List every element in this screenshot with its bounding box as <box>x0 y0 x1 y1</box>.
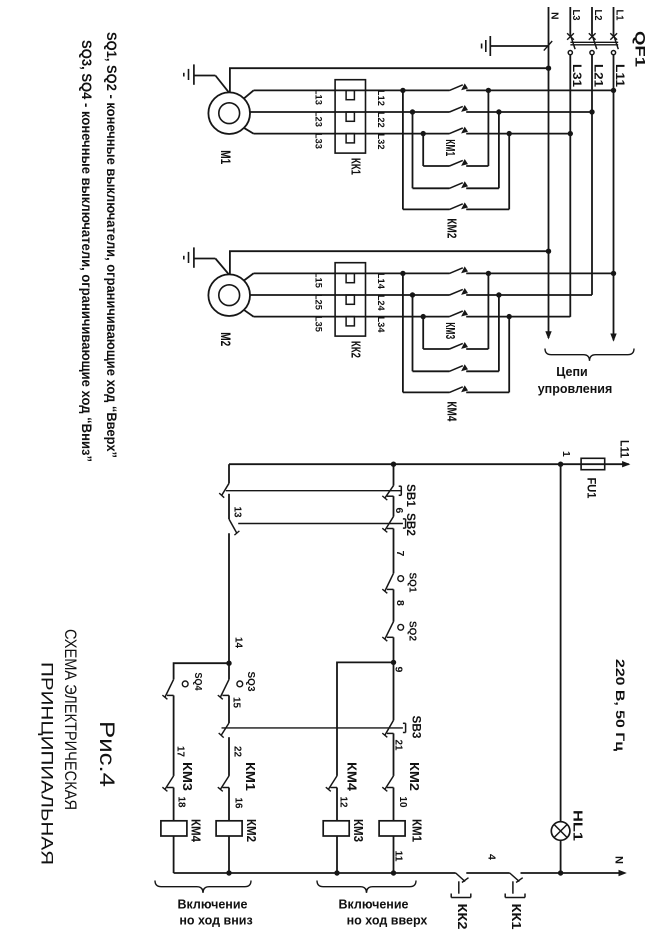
contactor КМ3 pole 3 <box>461 310 468 317</box>
pushbutton SB1 contact <box>385 486 394 499</box>
wire motor frame to earth <box>215 259 229 275</box>
brace switching-up group <box>317 881 416 893</box>
wire phase 1 КМ3 upper <box>466 272 613 274</box>
brace switching-down group <box>155 881 251 893</box>
continuation arrow N rail to control circuits <box>545 331 551 339</box>
coil KM3 <box>323 821 349 836</box>
pushbutton SB3 cap <box>405 723 407 732</box>
svg-text:Включение: Включение <box>339 898 409 912</box>
lamp HL1 <box>551 822 570 841</box>
limit switch SQ1 roller <box>398 576 404 582</box>
contactor КМ2 pole 2 <box>461 181 468 188</box>
coil KM4 <box>161 821 187 836</box>
limit switch SQ4 contact <box>165 679 174 697</box>
motor М2 outer circle <box>208 274 250 316</box>
thermal contact blade <box>456 873 465 882</box>
heater elements КК1 <box>346 90 354 99</box>
ground symbol motor frame <box>194 258 216 260</box>
wire KM4 coil to return rail <box>173 836 175 873</box>
wire rail L3 after breaker <box>569 55 571 317</box>
wire КМ4 cross upper 2 <box>498 295 500 371</box>
continuation arrow L1 rail to control circuits <box>610 334 616 342</box>
junction rung2 / return rail <box>334 870 339 875</box>
wire КМ4 cross upper 3 <box>508 317 510 393</box>
wire KM2 coil to return rail <box>228 836 230 873</box>
QF1 linkage bar <box>570 41 618 43</box>
wire top bus to lamp <box>560 464 562 821</box>
wire node 18 <box>173 788 175 821</box>
thermal relay КК2 box <box>335 263 365 336</box>
wire КМ4 cross lower 3 <box>422 317 424 349</box>
thermal contact actuator <box>458 881 460 893</box>
contactor КМ1 pole 1 <box>461 83 468 90</box>
linkage SB2 to aux contact <box>238 523 403 525</box>
wire phase 2 КМ1 upper <box>466 111 592 113</box>
coil KM1 <box>379 821 405 836</box>
wire КМ2 cross upper 3 <box>508 134 510 210</box>
junction L3 rail / M1 phase wire <box>568 131 573 136</box>
wire lamp to return rail <box>560 841 562 873</box>
junction feeder/bus <box>558 462 563 467</box>
wire feeder from L11 <box>561 463 629 465</box>
wire phase 1 into motor <box>244 90 254 98</box>
wire phase 1 КМ3 lower <box>254 272 450 274</box>
wire node 22 <box>228 737 230 776</box>
wire node 8 <box>393 589 395 621</box>
limit switch SQ1 contact <box>385 573 394 591</box>
wire rail L2 after breaker <box>591 55 593 295</box>
junction L1 rail / M2 phase wire <box>611 271 616 276</box>
limit switch SQ2 contact <box>385 622 394 640</box>
contactor КМ3 pole 2 <box>461 288 468 295</box>
svg-text:но ход вниз: но ход вниз <box>179 914 252 928</box>
wire phase 3 into motor <box>244 128 254 134</box>
circuit breaker QF1 (3-pole) on rails L1 L2 L3 <box>613 7 615 35</box>
motor М2 inner circle <box>219 285 240 306</box>
wire КМ4 pole1 vertical <box>466 348 488 350</box>
svg-text:упровления: упровления <box>538 382 613 396</box>
motor М1 inner circle <box>219 103 240 124</box>
wire rail N <box>548 7 550 338</box>
wire phase 2 КМ3 lower <box>250 294 450 296</box>
auxiliary contact linked to SB3 <box>221 723 229 735</box>
wire node 7 <box>393 529 395 574</box>
wire КМ2 pole3 vertical <box>466 208 509 210</box>
wire N to motor frame <box>230 251 549 275</box>
pushbutton SB3 contact <box>385 720 394 735</box>
wire return rail lower <box>174 872 456 874</box>
wire phase 1 КМ1 lower <box>254 89 450 91</box>
junction main rung / return rail <box>391 870 396 875</box>
wire KM3 coil to return rail <box>336 836 338 873</box>
contactor КМ3 pole 1 <box>461 266 468 273</box>
limit switch SQ3 roller <box>237 681 243 687</box>
wire main rung start <box>393 464 395 485</box>
wire КМ2 cross lower 2 <box>412 112 414 188</box>
continuation arrow N control <box>619 870 627 876</box>
contactor КМ2 pole 3 <box>461 202 468 209</box>
junction N rail / M2 frame tap <box>546 249 551 254</box>
wire КМ2 pole2 vertical <box>466 187 499 189</box>
limit switch SQ2 roller <box>398 624 404 630</box>
thermal contact blade <box>510 873 520 882</box>
wire phase 3 КМ1 lower <box>254 133 450 135</box>
wire return rail between KK1 KK2 <box>466 872 509 874</box>
junction node 14 <box>226 661 231 666</box>
motor М1 outer circle <box>208 92 250 134</box>
junction dots reversing frame <box>486 88 491 93</box>
contactor КМ1 pole 2 <box>461 105 468 112</box>
auxiliary contact linked to SB2 <box>229 519 237 533</box>
wire node 10 <box>393 788 395 821</box>
wire phase 1 into motor <box>244 273 254 280</box>
auxiliary contact KM1 NC <box>220 776 229 790</box>
pushbutton SB2 cap <box>405 519 407 528</box>
fuse FU1 <box>581 458 605 469</box>
wire drop from node 9 <box>337 662 394 776</box>
wire КМ2 cross upper 1 <box>487 90 489 166</box>
limit switch SQ4 roller <box>182 681 188 687</box>
thermal contact actuator <box>512 881 514 893</box>
pushbutton SB2 contact <box>385 517 394 531</box>
wire КМ4 pole3 vertical <box>466 391 509 393</box>
junction node 9 <box>391 660 396 665</box>
wire phase 3 КМ1 upper <box>466 133 570 135</box>
wire phase 3 КМ3 upper <box>466 316 570 318</box>
junction N rail / M1 frame tap <box>546 66 551 71</box>
limit switch SQ3 contact <box>220 679 229 697</box>
wire node 15 <box>228 663 230 679</box>
coil KM2 <box>216 821 242 836</box>
wire КМ2 cross upper 2 <box>498 112 500 188</box>
svg-text:Цепи: Цепи <box>556 365 587 379</box>
wire КМ4 cross lower 1 <box>402 273 404 392</box>
wire КМ4 cross upper 1 <box>487 273 489 349</box>
auxiliary contact KM2 NC <box>385 776 394 790</box>
wire phase 3 into motor <box>244 310 254 317</box>
auxiliary contact KM3 NC <box>165 776 174 790</box>
wire drop from node 14 <box>174 663 229 679</box>
wire node 11 to return rail <box>393 836 395 873</box>
wire rung3 start <box>228 464 230 483</box>
junction L1 rail / M1 phase wire <box>611 88 616 93</box>
auxiliary contact 13 (linked to SB1) <box>222 483 229 495</box>
wire node 17 <box>173 695 175 776</box>
contactor КМ2 pole 1 <box>461 159 468 166</box>
junction L2 rail / M1 phase wire <box>589 109 594 114</box>
contactor КМ4 pole 3 <box>461 385 468 392</box>
wire node 9 <box>393 637 395 720</box>
continuation arrow from L11 <box>622 461 630 467</box>
svg-text:Включение: Включение <box>178 898 248 912</box>
wire return rail above KK1 <box>521 872 561 874</box>
wire КМ2 pole1 vertical <box>466 165 488 167</box>
wire КМ2 cross lower 3 <box>422 134 424 166</box>
svg-text:но ход вверх: но ход вверх <box>347 914 428 928</box>
wire rung3 mid <box>228 533 230 663</box>
contactor КМ4 pole 1 <box>461 342 468 349</box>
linkage SB3 to aux contact <box>222 727 403 729</box>
wire phase 2 КМ1 lower <box>250 111 450 113</box>
contactor КМ1 pole 3 <box>461 127 468 134</box>
junction rung3 / return rail <box>226 870 231 875</box>
ground symbol motor frame <box>194 75 216 77</box>
ground symbol on N rail (supply PEN earth) <box>490 45 548 47</box>
junction left rail / main rung <box>391 462 396 467</box>
heater elements КК2 <box>346 273 354 282</box>
wire node 13 <box>228 494 230 519</box>
wire N to motor frame <box>230 68 549 93</box>
wire left rail <box>229 463 561 465</box>
wire return rail to N arrow <box>561 872 625 874</box>
pushbutton SB1 cap <box>400 486 402 495</box>
wire motor frame to earth <box>215 76 229 93</box>
wire node 21 <box>393 733 395 776</box>
junction dots reversing frame <box>486 271 491 276</box>
contactor КМ4 pole 2 <box>461 364 468 371</box>
wire КМ4 pole2 vertical <box>466 370 499 372</box>
wire rail L1 after breaker <box>613 55 615 340</box>
wire node 6 <box>393 496 395 516</box>
thermal relay КК1 box <box>335 80 365 153</box>
wire КМ2 cross lower 1 <box>402 90 404 209</box>
junction bus/return rail <box>558 870 563 875</box>
auxiliary contact KM4 NC <box>328 776 337 790</box>
wire phase 1 КМ1 upper <box>466 89 613 91</box>
brace control circuits group <box>545 349 634 361</box>
wire phase 2 КМ3 upper <box>466 294 592 296</box>
wire phase 3 КМ3 lower <box>254 316 450 318</box>
wire КМ4 cross lower 2 <box>412 295 414 371</box>
wire node 12 <box>336 788 338 821</box>
linkage SB1 to contact 13 <box>226 490 402 492</box>
wire node 16 <box>228 788 230 821</box>
